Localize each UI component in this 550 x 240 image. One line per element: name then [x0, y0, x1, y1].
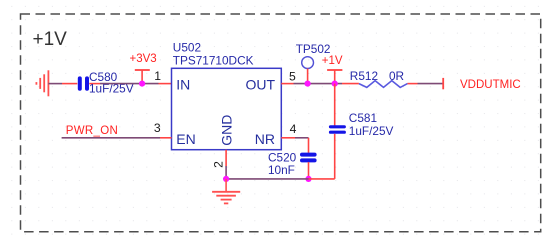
junction node +1V/C581: [332, 81, 338, 87]
wire C581 down to bottom rail: [334, 134, 336, 179]
wire R512 to port: [418, 83, 444, 85]
capacitor C520: [268, 151, 315, 178]
svg-text:2: 2: [211, 161, 225, 168]
junction node C520/bottom rail: [305, 176, 311, 182]
wire NR pin 4 to C520: [281, 138, 308, 153]
ground (bottom earth): [212, 179, 240, 204]
svg-text:5: 5: [289, 70, 296, 84]
wire GND pin 2: [225, 150, 227, 166]
svg-text:4: 4: [290, 122, 297, 136]
wire ground to C580: [48, 83, 62, 85]
power +3V3: [130, 53, 157, 84]
svg-text:OUT: OUT: [245, 77, 275, 93]
svg-text:IN: IN: [176, 77, 190, 93]
svg-text:U502: U502: [173, 41, 201, 55]
port VDDUTMIC: [443, 78, 521, 91]
junction node TP502: [305, 81, 311, 87]
resistor R512 0R: [342, 69, 418, 87]
svg-text:10nF: 10nF: [268, 163, 295, 177]
svg-text:1: 1: [154, 69, 161, 83]
svg-text:TP502: TP502: [296, 42, 331, 56]
svg-text:+1V: +1V: [322, 55, 343, 67]
regulator U502 TPS71710DCK: [172, 41, 282, 150]
wire bottom rail: [226, 178, 308, 180]
svg-text:GND: GND: [219, 115, 235, 146]
test point TP502: [296, 42, 331, 84]
capacitor C580: [62, 70, 134, 96]
wire C520 down to bottom rail: [308, 162, 310, 179]
svg-text:R512: R512: [350, 69, 378, 83]
svg-text:0R: 0R: [389, 69, 404, 83]
ground (left, sideways earth): [36, 70, 48, 96]
junction node GND/bottom rail: [223, 176, 229, 182]
svg-text:VDDUTMIC: VDDUTMIC: [460, 79, 521, 91]
svg-text:TPS71710DCK: TPS71710DCK: [173, 54, 254, 68]
junction node +3V3/IN: [139, 81, 145, 87]
power +1V: [322, 55, 343, 84]
wire PWR_ON to EN pin 3: [62, 137, 160, 139]
wire OUT pin 5: [281, 83, 293, 85]
svg-text:+3V3: +3V3: [130, 53, 157, 65]
svg-text:+1V: +1V: [33, 29, 68, 50]
svg-text:3: 3: [154, 121, 161, 135]
wire +1V junction down to C581: [334, 84, 336, 126]
svg-text:1uF/25V: 1uF/25V: [349, 124, 394, 138]
svg-text:NR: NR: [255, 131, 275, 147]
svg-text:EN: EN: [176, 131, 195, 147]
capacitor C581: [331, 111, 394, 138]
wire C580 to U502 IN: [100, 83, 159, 85]
svg-text:PWR_ON: PWR_ON: [66, 125, 118, 137]
